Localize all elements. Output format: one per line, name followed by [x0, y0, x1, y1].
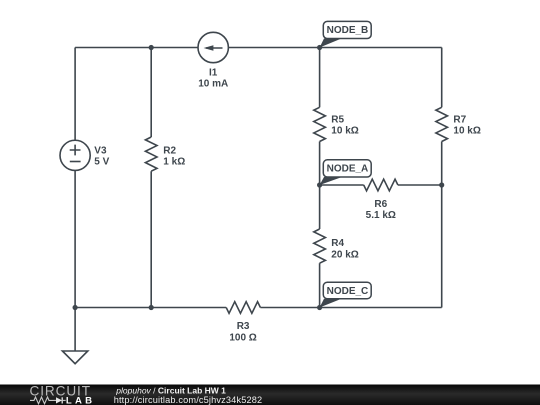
V3 plus sign: [70, 145, 81, 156]
junction dot node B: [317, 45, 322, 50]
voltage source V3: [60, 140, 90, 170]
resistor R3: [226, 302, 260, 314]
svg-text:V3: V3: [94, 146, 107, 157]
svg-text:http://circuitlab.com/c5jhvz34: http://circuitlab.com/c5jhvz34k5282: [114, 395, 263, 405]
svg-text:I1: I1: [209, 67, 218, 78]
svg-text:10 kΩ: 10 kΩ: [331, 126, 358, 137]
wire node B rail: [319, 48, 321, 108]
resistor R7: [436, 107, 448, 141]
wire R4 to node C: [319, 263, 321, 307]
wire left rail upper: [74, 48, 76, 141]
wire top right horizontal: [228, 47, 441, 49]
svg-text:10 mA: 10 mA: [198, 78, 228, 89]
junction dot node A: [317, 182, 322, 187]
resistor R2: [145, 137, 157, 171]
wire bottom right: [260, 307, 441, 309]
resistor R6: [364, 179, 398, 191]
svg-text:R7: R7: [453, 114, 466, 125]
resistor R5: [314, 107, 326, 141]
svg-text:5.1 kΩ: 5.1 kΩ: [366, 210, 396, 221]
current source I1: [198, 32, 228, 62]
junction dot bottom R2 rail: [149, 305, 154, 310]
wire R5 to node A: [319, 142, 321, 186]
junction dot R6 right: [439, 182, 444, 187]
junction dot node C: [317, 305, 322, 310]
I1 arrowhead: [204, 45, 214, 50]
node A flag wedge: [320, 177, 342, 185]
wire R2 rail lower: [150, 171, 152, 307]
ground: [62, 351, 87, 364]
svg-text:R5: R5: [331, 114, 344, 125]
wire node A to R6: [320, 184, 364, 186]
I1 arrow line: [206, 47, 223, 49]
svg-text:10 kΩ: 10 kΩ: [453, 126, 480, 137]
footer logo diode symbol: [54, 399, 57, 401]
svg-text:LAB: LAB: [66, 395, 95, 405]
svg-text:100 Ω: 100 Ω: [229, 333, 256, 344]
footer bar: [0, 385, 540, 405]
footer logo resistor zigzag: [30, 397, 54, 404]
svg-text:R6: R6: [374, 199, 387, 210]
wire right rail lower: [441, 142, 443, 308]
svg-text:NODE_C: NODE_C: [327, 286, 369, 297]
node A label box: [323, 160, 371, 177]
wire top left horizontal: [75, 47, 198, 49]
svg-text:20 kΩ: 20 kΩ: [331, 249, 358, 260]
wire left rail lower: [74, 170, 76, 307]
svg-text:R2: R2: [163, 146, 176, 157]
junction dot bottom left rail: [73, 305, 78, 310]
wire node A to R4: [319, 185, 321, 229]
junction dot top R2: [149, 45, 154, 50]
V3 minus sign: [70, 161, 81, 163]
node B flag wedge: [320, 39, 342, 48]
wire bottom left: [75, 307, 226, 309]
svg-text:5 V: 5 V: [94, 157, 109, 168]
resistor R4: [314, 229, 326, 263]
node B label box: [323, 21, 371, 38]
wire R6 to right rail: [398, 184, 442, 186]
node C label box: [323, 282, 371, 299]
svg-text:NODE_B: NODE_B: [327, 25, 369, 36]
svg-text:NODE_A: NODE_A: [327, 164, 369, 175]
node C flag wedge: [320, 299, 342, 308]
wire right rail upper: [441, 48, 443, 108]
wire R2 rail upper: [150, 48, 152, 138]
svg-text:1 kΩ: 1 kΩ: [163, 157, 185, 168]
svg-text:R4: R4: [331, 238, 344, 249]
wire ground stem: [74, 308, 76, 352]
svg-text:R3: R3: [237, 321, 250, 332]
